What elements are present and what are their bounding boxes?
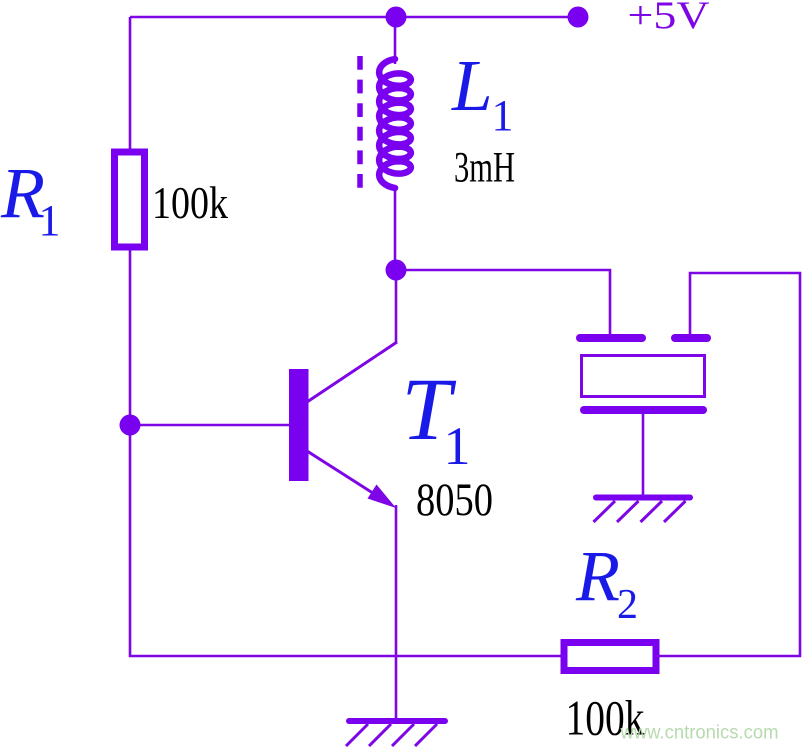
wire piezo right electrode up and over — [690, 273, 800, 657]
svg-text:1: 1 — [444, 416, 471, 476]
node terminal dot +5V — [568, 7, 589, 28]
svg-text:2: 2 — [617, 582, 638, 628]
svg-text:1: 1 — [39, 196, 61, 245]
node junction dot collector — [386, 260, 407, 281]
wire piezo stem — [642, 411, 645, 496]
wire emitter vertical — [395, 505, 398, 719]
ground bottom hatch 2 — [369, 724, 391, 746]
resistor R1 — [115, 152, 145, 247]
ground right hatch 2 — [617, 501, 639, 522]
wire left vertical upper — [129, 17, 132, 152]
wire collector vertical — [395, 270, 398, 343]
svg-text:100k: 100k — [152, 178, 228, 228]
svg-text:3mH: 3mH — [454, 145, 515, 192]
wire L1 bottom — [394, 185, 397, 271]
wire base horizontal — [130, 424, 291, 427]
wire L1 top — [394, 17, 397, 64]
inductor L1 core dashed line — [357, 56, 363, 188]
piezo transducer body rect — [582, 356, 705, 397]
svg-text:8050: 8050 — [416, 475, 493, 526]
svg-text:www.cntronics.com: www.cntronics.com — [620, 722, 779, 744]
wire top rail +5V — [130, 16, 578, 19]
piezo transducer bottom plate — [584, 406, 703, 414]
ground bottom hatch 1 — [346, 724, 368, 746]
transistor T1 collector diagonal — [307, 342, 397, 402]
resistor R2 — [564, 643, 656, 671]
ground right hatch 3 — [641, 501, 663, 522]
inductor L1 coil — [379, 59, 411, 188]
node junction dot L1 top — [386, 7, 407, 28]
transistor T1 emitter arrowhead — [368, 485, 397, 509]
wire left vertical lower — [129, 248, 132, 657]
ground right hatch 4 — [664, 501, 686, 522]
ground bottom bar — [349, 718, 445, 724]
wire collector node to piezo left — [396, 270, 610, 336]
svg-text:R: R — [575, 536, 620, 616]
svg-text:+5V: +5V — [628, 0, 710, 37]
ground bottom hatch 3 — [392, 724, 414, 746]
svg-text:1: 1 — [492, 91, 514, 140]
svg-text:L: L — [451, 45, 493, 126]
wire R2 right to right rail — [658, 655, 801, 658]
ground right bar — [596, 495, 690, 501]
piezo transducer right electrode — [675, 334, 707, 342]
ground right hatch 1 — [594, 501, 616, 522]
transistor T1 base bar — [289, 369, 309, 481]
wire bottom horizontal left — [129, 655, 562, 658]
transistor T1 emitter diagonal — [307, 451, 390, 504]
piezo transducer left electrode — [580, 334, 642, 342]
node junction dot base — [120, 415, 141, 436]
ground bottom hatch 4 — [415, 724, 437, 746]
